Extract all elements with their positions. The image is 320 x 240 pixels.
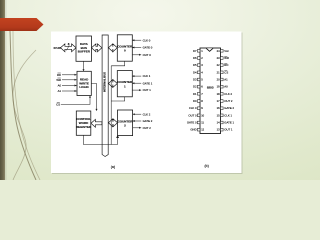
- wire CS: [56, 96, 91, 107]
- svg-text:D7-D0: D7-D0: [54, 47, 62, 50]
- wire CLK 1: [132, 74, 151, 78]
- svg-text:20: 20: [217, 78, 220, 82]
- pin 11 (GATE 0): [187, 121, 205, 125]
- svg-text:14: 14: [217, 121, 220, 125]
- pin 22 (RD): [217, 63, 229, 67]
- bus arrow: internal bus to counter 2: [108, 119, 117, 127]
- svg-text:12: 12: [201, 128, 204, 132]
- internal bus: [102, 35, 108, 157]
- svg-text:REGISTER: REGISTER: [76, 125, 92, 129]
- svg-text:CS: CS: [224, 70, 228, 74]
- bus arrow: internal bus to control word register: [91, 119, 102, 127]
- decorative vine curve 1: [10, 31, 36, 180]
- wire WR: [56, 78, 76, 82]
- svg-text:OUT 0: OUT 0: [143, 53, 152, 57]
- red arrow banner: [0, 18, 44, 31]
- pin 4 (D4): [193, 70, 203, 74]
- svg-text:OUT 0: OUT 0: [188, 113, 197, 117]
- IC package 8253 DIP-24: [200, 48, 221, 134]
- white panel shadow: [52, 33, 243, 175]
- svg-text:13: 13: [217, 128, 220, 132]
- svg-text:GND: GND: [190, 128, 196, 132]
- svg-text:RD: RD: [224, 63, 228, 67]
- decorative vine curve 2: [13, 31, 40, 180]
- pin 3 (D5): [193, 63, 203, 67]
- pin 10 (OUT 0): [188, 113, 204, 117]
- svg-text:D6: D6: [193, 56, 197, 60]
- pin 14 (GATE 1): [217, 121, 235, 125]
- svg-text:21: 21: [217, 70, 220, 74]
- svg-text:19: 19: [217, 85, 220, 89]
- svg-text:GATE 1: GATE 1: [143, 81, 153, 85]
- svg-text:A1: A1: [224, 78, 228, 82]
- svg-text:17: 17: [217, 99, 220, 103]
- left edge bar: [0, 0, 5, 180]
- decorative vine curve 3: [13, 50, 36, 180]
- svg-text:D1: D1: [193, 92, 197, 96]
- left bar soft shadow: [5, 0, 7, 180]
- svg-text:OUT 1: OUT 1: [143, 88, 152, 92]
- svg-text:GATE 2: GATE 2: [224, 106, 234, 110]
- svg-text:22: 22: [217, 63, 220, 67]
- pin 1 (D7): [193, 49, 203, 53]
- svg-text:GATE 0: GATE 0: [143, 46, 153, 50]
- slide background: [0, 0, 320, 180]
- pin 8 (D0): [193, 99, 203, 103]
- pin 21 (CS): [217, 70, 229, 74]
- pin 12 (GND): [190, 128, 204, 132]
- wire: counter 2 control tap: [117, 136, 119, 145]
- pin 2 (D6): [193, 56, 203, 60]
- pin 5 (D3): [193, 78, 203, 82]
- svg-text:RD: RD: [57, 73, 61, 77]
- pin 17 (OUT 2): [217, 99, 233, 103]
- svg-text:WR: WR: [56, 78, 61, 82]
- block: CONTROL WORD REGISTER: [76, 111, 92, 135]
- wire: read/write logic to control word register: [91, 84, 97, 112]
- pin 6 (D2): [193, 85, 203, 89]
- wire: control word register to control line: [84, 135, 118, 144]
- wire GATE 2: [133, 119, 153, 123]
- pin 23 (WR): [217, 56, 229, 60]
- svg-text:CLK 1: CLK 1: [143, 74, 151, 78]
- wire A0: [58, 84, 77, 88]
- svg-text:D0: D0: [193, 99, 197, 103]
- bus arrow: buffer to internal bus: [92, 44, 102, 52]
- wire: counter 0 control tap: [111, 61, 125, 66]
- pin 16 (GATE 2): [217, 106, 235, 110]
- svg-text:D2: D2: [193, 85, 197, 89]
- wire OUT 2: [133, 126, 152, 130]
- svg-text:WR: WR: [224, 56, 229, 60]
- wire CLK 2: [133, 112, 151, 116]
- svg-text:BUFFER: BUFFER: [78, 50, 91, 54]
- white content panel: [51, 32, 242, 174]
- svg-text:24: 24: [217, 49, 220, 53]
- pin 19 (A0): [217, 85, 229, 89]
- svg-text:D4: D4: [193, 70, 197, 74]
- svg-text:A0: A0: [224, 85, 228, 89]
- svg-text:GATE 0: GATE 0: [187, 121, 197, 125]
- bus arrow: internal bus to counter 1: [108, 80, 117, 88]
- block: COUNTER 0: [117, 35, 133, 61]
- pin 20 (A1): [217, 78, 229, 82]
- wire OUT 1: [132, 88, 151, 92]
- pin 9 (CLK 0): [189, 106, 203, 110]
- wire A1: [58, 89, 77, 93]
- svg-text:8253: 8253: [207, 85, 214, 89]
- svg-text:OUT 1: OUT 1: [224, 128, 233, 132]
- svg-text:GATE 1: GATE 1: [224, 121, 234, 125]
- svg-text:CLK 0: CLK 0: [189, 106, 197, 110]
- wire: buffer to read/write logic: [83, 61, 85, 71]
- block: READ/WRITE LOGIC: [77, 71, 91, 95]
- pin 7 (D1): [193, 92, 203, 96]
- bus arrow: external data bus to buffer: [61, 42, 77, 52]
- svg-text:CS: CS: [56, 102, 60, 106]
- svg-text:INTERNAL BUS: INTERNAL BUS: [103, 72, 107, 92]
- wire: counter 1 control tap: [111, 97, 125, 101]
- pin 13 (OUT 1): [217, 128, 233, 132]
- svg-text:GATE 2: GATE 2: [143, 119, 153, 123]
- wire CLK 0: [132, 38, 151, 42]
- svg-text:D5: D5: [193, 63, 197, 67]
- svg-text:A0: A0: [58, 84, 62, 88]
- wire OUT 0: [132, 53, 151, 57]
- svg-text:CLK 2: CLK 2: [143, 112, 151, 116]
- svg-text:CLK 2: CLK 2: [224, 92, 232, 96]
- svg-text:16: 16: [217, 106, 220, 110]
- svg-text:10: 10: [201, 113, 204, 117]
- wire GATE 1: [132, 81, 152, 85]
- pin 15 (CLK 1): [217, 113, 233, 117]
- svg-text:(b): (b): [204, 164, 208, 168]
- svg-text:D3: D3: [193, 78, 197, 82]
- bus arrow: internal bus to counter 0: [108, 44, 117, 52]
- block U: DATA BUS BUFFER: [76, 36, 92, 61]
- svg-text:A1: A1: [58, 89, 62, 93]
- svg-text:D7: D7: [193, 49, 197, 53]
- svg-text:OUT 2: OUT 2: [143, 126, 152, 130]
- svg-text:23: 23: [217, 56, 220, 60]
- wire GATE 0: [132, 46, 152, 50]
- wire: vertical control line: [110, 66, 112, 145]
- block: COUNTER 1: [117, 71, 133, 97]
- svg-text:15: 15: [217, 113, 220, 117]
- svg-text:LOGIC: LOGIC: [79, 85, 89, 89]
- svg-text:Vcc: Vcc: [224, 49, 229, 53]
- svg-text:18: 18: [217, 92, 220, 96]
- svg-text:(a): (a): [111, 165, 115, 169]
- svg-text:CLK 0: CLK 0: [143, 38, 151, 42]
- pin 24 (Vcc): [217, 49, 230, 53]
- pin 18 (CLK 2): [217, 92, 233, 96]
- wire RD: [57, 73, 77, 77]
- block: COUNTER 2: [118, 110, 134, 136]
- svg-text:OUT 2: OUT 2: [224, 99, 233, 103]
- svg-text:CLK 1: CLK 1: [224, 113, 232, 117]
